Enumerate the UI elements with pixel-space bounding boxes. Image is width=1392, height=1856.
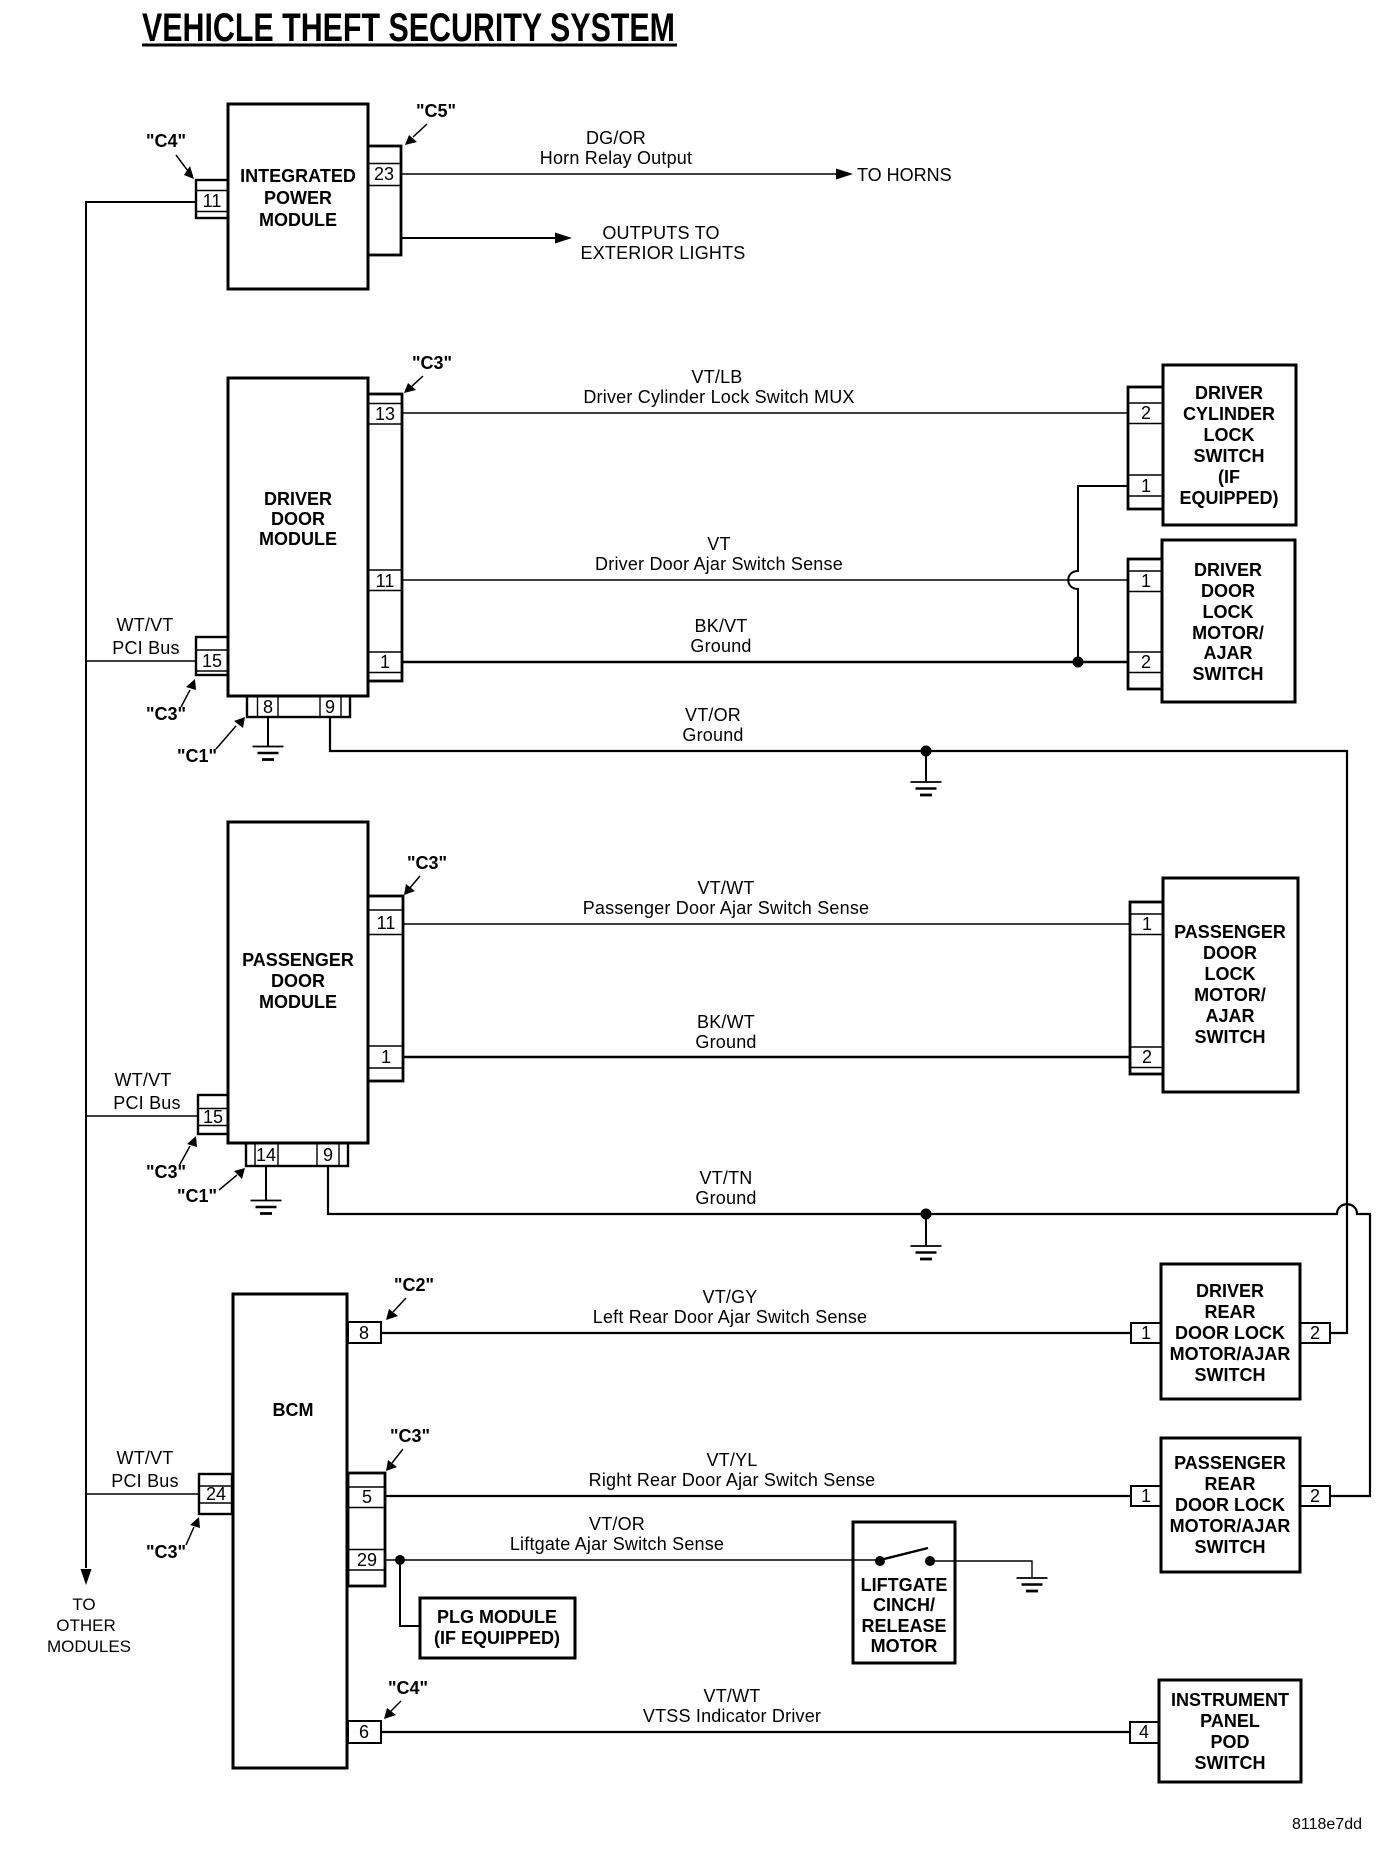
svg-text:WT/VT: WT/VT bbox=[117, 1448, 174, 1468]
svg-text:6: 6 bbox=[359, 1722, 369, 1742]
ground G5 right of liftgate motor bbox=[1017, 1578, 1048, 1591]
svg-text:PCI Bus: PCI Bus bbox=[112, 638, 179, 658]
label "C3" with arrow (PDM right) bbox=[404, 853, 447, 895]
svg-text:PCI Bus: PCI Bus bbox=[113, 1093, 180, 1113]
svg-text:CINCH/: CINCH/ bbox=[873, 1595, 935, 1615]
wire WT/VT PCI Bus branch to PDM pin 15 bbox=[86, 1115, 198, 1117]
svg-text:1: 1 bbox=[1141, 476, 1151, 496]
svg-text:"C2": "C2" bbox=[394, 1275, 434, 1295]
svg-text:LIFTGATE: LIFTGATE bbox=[861, 1575, 948, 1595]
svg-text:PASSENGER: PASSENGER bbox=[1174, 922, 1286, 942]
svg-text:VTSS Indicator Driver: VTSS Indicator Driver bbox=[643, 1706, 821, 1726]
svg-text:"C1": "C1" bbox=[177, 1186, 217, 1206]
label "C1" with arrow (DDM) bbox=[177, 717, 245, 766]
svg-text:13: 13 bbox=[375, 404, 395, 424]
svg-text:BCM: BCM bbox=[273, 1400, 314, 1420]
connector of Driver Door Lock Motor, pins 1,2 bbox=[1128, 559, 1162, 689]
svg-text:Ground: Ground bbox=[695, 1188, 756, 1208]
svg-text:1: 1 bbox=[1141, 571, 1151, 591]
svg-text:RELEASE: RELEASE bbox=[861, 1616, 946, 1636]
svg-text:MOTOR/: MOTOR/ bbox=[1194, 985, 1266, 1005]
svg-text:8: 8 bbox=[359, 1323, 369, 1343]
svg-text:MOTOR/AJAR: MOTOR/AJAR bbox=[1170, 1516, 1291, 1536]
svg-text:CYLINDER: CYLINDER bbox=[1183, 404, 1275, 424]
svg-text:PANEL: PANEL bbox=[1200, 1711, 1260, 1731]
svg-text:8: 8 bbox=[263, 697, 273, 717]
module U3 Passenger Door Module bbox=[228, 822, 368, 1143]
svg-text:SWITCH: SWITCH bbox=[1193, 664, 1264, 684]
svg-text:SWITCH: SWITCH bbox=[1195, 1027, 1266, 1047]
module U5 PLG Module (If Equipped) bbox=[420, 1598, 575, 1658]
svg-text:23: 23 bbox=[374, 164, 394, 184]
motor M4 Passenger Rear Door Lock Motor/Ajar Switch bbox=[1161, 1438, 1300, 1572]
motor M1 Driver Door Lock Motor/Ajar Switch bbox=[1162, 540, 1295, 702]
svg-text:"C3": "C3" bbox=[407, 853, 447, 873]
svg-text:VT/TN: VT/TN bbox=[700, 1168, 753, 1188]
svg-text:11: 11 bbox=[203, 191, 222, 211]
svg-text:SWITCH: SWITCH bbox=[1194, 446, 1265, 466]
svg-text:VT/YL: VT/YL bbox=[706, 1450, 757, 1470]
motor M2 Passenger Door Lock Motor/Ajar Switch bbox=[1163, 878, 1298, 1092]
pin 1 of passenger rear door lock bbox=[1131, 1486, 1161, 1506]
svg-text:DOOR: DOOR bbox=[1201, 581, 1255, 601]
svg-text:LOCK: LOCK bbox=[1204, 425, 1255, 445]
label "C4" with arrow bbox=[146, 131, 194, 179]
svg-text:POWER: POWER bbox=[264, 188, 332, 208]
svg-text:DG/OR: DG/OR bbox=[586, 128, 646, 148]
wire PCI bus (WT/VT) vertical bus with arrow to other modules bbox=[81, 202, 197, 1585]
svg-text:"C3": "C3" bbox=[146, 1542, 186, 1562]
svg-text:MODULE: MODULE bbox=[259, 210, 337, 230]
svg-text:DRIVER: DRIVER bbox=[264, 489, 332, 509]
svg-text:(IF: (IF bbox=[1218, 467, 1240, 487]
connector C5 of IPM, pin 23 bbox=[368, 146, 401, 255]
connector C3 of BCM (left), pin 24 bbox=[199, 1474, 232, 1514]
svg-text:Right Rear Door Ajar Switch Se: Right Rear Door Ajar Switch Sense bbox=[589, 1470, 876, 1490]
label "C2" with arrow bbox=[386, 1275, 434, 1320]
svg-text:DOOR: DOOR bbox=[271, 509, 325, 529]
ground G2 below VT/OR wire bbox=[911, 751, 942, 795]
svg-text:DOOR: DOOR bbox=[271, 971, 325, 991]
svg-text:LOCK: LOCK bbox=[1203, 602, 1254, 622]
svg-text:TO: TO bbox=[72, 1595, 95, 1614]
wire VT/OR Liftgate Ajar Switch Sense bbox=[385, 1559, 880, 1561]
svg-text:15: 15 bbox=[203, 1107, 223, 1127]
wire VT/YL Right Rear Door Ajar Switch Sense bbox=[385, 1495, 1131, 1497]
svg-text:Left Rear Door Ajar Switch Sen: Left Rear Door Ajar Switch Sense bbox=[593, 1307, 868, 1327]
svg-text:"C4": "C4" bbox=[146, 131, 186, 151]
wire from DCLS pin 1 down to BK/VT with hop over VT wire bbox=[1068, 486, 1128, 662]
svg-text:EQUIPPED): EQUIPPED) bbox=[1179, 488, 1278, 508]
svg-text:"C5": "C5" bbox=[416, 101, 456, 121]
svg-text:DRIVER: DRIVER bbox=[1194, 560, 1262, 580]
label "C3" with arrow (BCM right) bbox=[386, 1426, 430, 1471]
svg-text:1: 1 bbox=[1141, 1323, 1151, 1343]
svg-text:POD: POD bbox=[1210, 1732, 1249, 1752]
module U2 Driver Door Module bbox=[228, 378, 368, 696]
svg-text:LOCK: LOCK bbox=[1205, 964, 1256, 984]
svg-text:29: 29 bbox=[357, 1550, 377, 1570]
svg-text:Passenger Door Ajar Switch Sen: Passenger Door Ajar Switch Sense bbox=[583, 898, 870, 918]
svg-text:WT/VT: WT/VT bbox=[115, 1070, 172, 1090]
svg-text:OTHER: OTHER bbox=[56, 1616, 116, 1635]
svg-text:VT/OR: VT/OR bbox=[685, 705, 741, 725]
title VEHICLE THEFT SECURITY SYSTEM bbox=[142, 6, 677, 50]
connector of Driver Cylinder Lock Switch, pins 2,1 bbox=[1128, 387, 1163, 509]
svg-text:PLG MODULE: PLG MODULE bbox=[437, 1607, 557, 1627]
junction dot on VT/OR at x=926 bbox=[921, 746, 932, 757]
svg-text:INTEGRATED: INTEGRATED bbox=[240, 166, 356, 186]
svg-text:(IF EQUIPPED): (IF EQUIPPED) bbox=[434, 1628, 560, 1648]
svg-text:1: 1 bbox=[380, 652, 390, 672]
svg-text:4: 4 bbox=[1139, 1722, 1149, 1742]
svg-text:"C4": "C4" bbox=[388, 1678, 428, 1698]
svg-text:DRIVER: DRIVER bbox=[1196, 1281, 1264, 1301]
label "C1" with arrow (PDM) bbox=[177, 1168, 245, 1206]
svg-text:MOTOR/: MOTOR/ bbox=[1192, 623, 1264, 643]
svg-text:EXTERIOR LIGHTS: EXTERIOR LIGHTS bbox=[580, 243, 745, 263]
svg-text:VT/LB: VT/LB bbox=[691, 367, 742, 387]
wire VT Driver Door Ajar Switch Sense bbox=[402, 579, 1128, 581]
label "C3" with arrow (BCM left) bbox=[146, 1517, 200, 1562]
module U1 Integrated Power Module bbox=[228, 104, 368, 289]
label "C5" with arrow bbox=[405, 101, 456, 145]
connector C1 of PDM (bottom), pins 14,9 bbox=[246, 1143, 348, 1166]
connector C3 of BCM, pins 5,29 bbox=[348, 1473, 385, 1586]
wire VT/TN Ground from PDM pin 9, hops over VT/OR riser, to passenger rear door lock pin 2 bbox=[328, 1166, 1370, 1496]
label "C4" with arrow (BCM) bbox=[384, 1678, 428, 1719]
svg-text:"C3": "C3" bbox=[390, 1426, 430, 1446]
svg-text:1: 1 bbox=[381, 1047, 391, 1067]
svg-text:24: 24 bbox=[206, 1484, 226, 1504]
connector C3 of PDM (left), pin 15 bbox=[198, 1095, 228, 1134]
svg-text:MOTOR: MOTOR bbox=[871, 1636, 938, 1656]
pin 1 of driver rear door lock bbox=[1131, 1323, 1161, 1343]
wire WT/VT PCI Bus branch to DDM pin 15 bbox=[86, 660, 196, 662]
label "C3" with arrow (DDM right) bbox=[404, 353, 452, 393]
svg-text:9: 9 bbox=[323, 1145, 333, 1165]
svg-text:DRIVER: DRIVER bbox=[1195, 383, 1263, 403]
label "C3" with arrow (PDM left) bbox=[146, 1136, 197, 1182]
junction dot on VT/TN at x=926 bbox=[921, 1209, 932, 1220]
svg-text:SWITCH: SWITCH bbox=[1195, 1753, 1266, 1773]
svg-text:1: 1 bbox=[1141, 1486, 1151, 1506]
svg-text:Liftgate Ajar Switch Sense: Liftgate Ajar Switch Sense bbox=[510, 1534, 724, 1554]
wire WT/VT PCI Bus branch to BCM pin 24 bbox=[86, 1493, 199, 1495]
svg-text:AJAR: AJAR bbox=[1205, 1006, 1254, 1026]
svg-text:14: 14 bbox=[256, 1145, 276, 1165]
wire VT/WT VTSS Indicator Driver bbox=[381, 1731, 1130, 1733]
svg-text:5: 5 bbox=[362, 1487, 372, 1507]
switch S3 Instrument Panel Pod Switch bbox=[1159, 1680, 1301, 1782]
wire DG/OR Horn Relay Output to horns bbox=[401, 169, 853, 180]
svg-text:BK/WT: BK/WT bbox=[697, 1012, 755, 1032]
svg-text:REAR: REAR bbox=[1204, 1302, 1255, 1322]
svg-text:2: 2 bbox=[1310, 1486, 1320, 1506]
pin 2 of passenger rear door lock bbox=[1300, 1486, 1330, 1506]
svg-text:Driver Cylinder Lock Switch MU: Driver Cylinder Lock Switch MUX bbox=[583, 387, 854, 407]
svg-text:2: 2 bbox=[1141, 652, 1151, 672]
svg-text:VT/WT: VT/WT bbox=[698, 878, 755, 898]
svg-text:"C1": "C1" bbox=[177, 746, 217, 766]
pin 4 of instrument panel pod switch bbox=[1130, 1722, 1159, 1743]
module U4 BCM bbox=[233, 1294, 347, 1768]
svg-text:MODULE: MODULE bbox=[259, 992, 337, 1012]
motor M3 Driver Rear Door Lock Motor/Ajar Switch bbox=[1161, 1264, 1300, 1399]
svg-text:2: 2 bbox=[1310, 1323, 1320, 1343]
svg-text:15: 15 bbox=[202, 651, 222, 671]
svg-text:DOOR LOCK: DOOR LOCK bbox=[1175, 1495, 1285, 1515]
svg-text:8118e7dd: 8118e7dd bbox=[1292, 1816, 1362, 1833]
ground G1 under DDM pin 8 bbox=[253, 717, 284, 760]
label "C3" with arrow (DDM left) bbox=[146, 679, 196, 724]
wire from liftgate switch to ground bbox=[930, 1561, 1032, 1577]
junction dot node PLG tap bbox=[395, 1555, 405, 1565]
svg-text:TO HORNS: TO HORNS bbox=[857, 165, 952, 185]
svg-text:VEHICLE THEFT SECURITY SYSTEM: VEHICLE THEFT SECURITY SYSTEM bbox=[142, 6, 675, 50]
svg-text:MODULES: MODULES bbox=[47, 1637, 131, 1656]
svg-text:Ground: Ground bbox=[695, 1032, 756, 1052]
connector C3 of PDM (right), pins 11,1 bbox=[368, 896, 403, 1081]
svg-text:VT/WT: VT/WT bbox=[704, 1686, 761, 1706]
wire outputs to exterior lights bbox=[401, 233, 572, 244]
svg-text:Driver Door Ajar Switch Sense: Driver Door Ajar Switch Sense bbox=[595, 554, 843, 574]
svg-text:2: 2 bbox=[1141, 403, 1151, 423]
ground G4 below VT/TN wire bbox=[911, 1214, 942, 1259]
svg-text:Horn Relay Output: Horn Relay Output bbox=[540, 148, 692, 168]
wire VT/OR Ground from DDM pin 9 to driver rear door lock pin 2 bbox=[330, 717, 1347, 1333]
connector C1 of DDM (bottom), pins 8,9 bbox=[247, 696, 350, 717]
wire from tap down to PLG module bbox=[400, 1560, 420, 1626]
ground G3 under PDM pin 14 bbox=[251, 1166, 282, 1214]
connector C4 of IPM, pin 11 bbox=[196, 180, 228, 218]
svg-text:OUTPUTS TO: OUTPUTS TO bbox=[602, 223, 719, 243]
svg-text:SWITCH: SWITCH bbox=[1195, 1365, 1266, 1385]
svg-text:MOTOR/AJAR: MOTOR/AJAR bbox=[1170, 1344, 1291, 1364]
svg-text:VT/GY: VT/GY bbox=[702, 1287, 757, 1307]
svg-text:1: 1 bbox=[1142, 914, 1152, 934]
svg-text:SWITCH: SWITCH bbox=[1195, 1537, 1266, 1557]
svg-text:VT/OR: VT/OR bbox=[589, 1514, 645, 1534]
label TO OTHER MODULES bbox=[47, 1595, 131, 1656]
svg-text:2: 2 bbox=[1142, 1047, 1152, 1067]
connector C4 of BCM, pin 6 bbox=[348, 1721, 381, 1743]
svg-text:Ground: Ground bbox=[682, 725, 743, 745]
switch S1 Driver Cylinder Lock Switch (If Equipped) bbox=[1163, 365, 1296, 525]
wire VT/LB Driver Cylinder Lock Switch MUX bbox=[402, 412, 1128, 414]
junction dot on BK/VT at x=1078 bbox=[1073, 657, 1084, 668]
connector C3 of DDM (left), pin 15 bbox=[196, 637, 228, 675]
svg-text:"C3": "C3" bbox=[412, 353, 452, 373]
switch S2 liftgate ajar switch contacts and blade bbox=[875, 1548, 935, 1566]
svg-text:"C3": "C3" bbox=[146, 704, 186, 724]
svg-text:INSTRUMENT: INSTRUMENT bbox=[1171, 1690, 1289, 1710]
svg-text:AJAR: AJAR bbox=[1203, 643, 1252, 663]
svg-text:VT: VT bbox=[707, 534, 730, 554]
svg-text:9: 9 bbox=[325, 697, 335, 717]
svg-text:MODULE: MODULE bbox=[259, 529, 337, 549]
svg-text:REAR: REAR bbox=[1204, 1474, 1255, 1494]
connector of Passenger Door Lock Motor, pins 1,2 bbox=[1130, 902, 1163, 1074]
svg-text:WT/VT: WT/VT bbox=[117, 615, 174, 635]
label OUTPUTS TO EXTERIOR LIGHTS bbox=[580, 223, 745, 263]
svg-text:Ground: Ground bbox=[690, 636, 751, 656]
wire VT/WT Passenger Door Ajar Switch Sense bbox=[403, 923, 1130, 925]
connector C2 of BCM, pin 8 bbox=[348, 1322, 381, 1343]
svg-text:DOOR: DOOR bbox=[1203, 943, 1257, 963]
svg-text:BK/VT: BK/VT bbox=[694, 616, 747, 636]
svg-text:PCI Bus: PCI Bus bbox=[111, 1471, 178, 1491]
svg-text:11: 11 bbox=[376, 571, 395, 591]
svg-text:11: 11 bbox=[377, 913, 396, 933]
motor M5 Liftgate Cinch/Release Motor bbox=[853, 1522, 955, 1663]
svg-text:PASSENGER: PASSENGER bbox=[1174, 1453, 1286, 1473]
svg-text:PASSENGER: PASSENGER bbox=[242, 950, 354, 970]
wire VT/GY Left Rear Door Ajar Switch Sense bbox=[381, 1332, 1131, 1334]
wire BK/VT Ground bbox=[402, 661, 1128, 663]
pin 2 of driver rear door lock bbox=[1300, 1323, 1330, 1343]
wire BK/WT Ground bbox=[403, 1056, 1130, 1058]
svg-text:DOOR LOCK: DOOR LOCK bbox=[1175, 1323, 1285, 1343]
connector C3 of DDM (right), pins 13,11,1 bbox=[368, 394, 402, 681]
